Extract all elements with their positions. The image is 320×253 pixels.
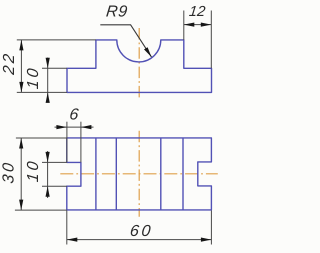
dim 12 extension line right: [210, 11, 212, 69]
centerline vertical front view: [138, 28, 140, 99]
dim 12 arrow left: [184, 23, 195, 27]
dim 10 bottom arrow up: [46, 186, 50, 197]
dim 60 arrow right: [201, 238, 212, 242]
dim 60 arrow left: [67, 238, 78, 242]
dim 10 front arrow down: [46, 58, 50, 69]
dim 22 extension line bottom: [17, 91, 67, 93]
svg-text:12: 12: [188, 4, 206, 20]
centerline horizontal bottom view: [60, 173, 218, 175]
dim 22 extension line top: [17, 39, 96, 41]
dim 10 front arrow up: [46, 92, 50, 103]
dim 22 dimension line: [20, 40, 22, 93]
dim 30 dimension line: [20, 138, 22, 210]
dim 22 arrow down: [19, 82, 23, 93]
svg-text:R9: R9: [105, 3, 128, 21]
svg-text:60: 60: [129, 222, 154, 240]
dim 12 arrow right: [201, 23, 212, 27]
bottom view edge line arc left: [115, 138, 117, 210]
centerline vertical bottom view: [138, 131, 140, 217]
dim 10 front dimension line: [47, 58, 49, 102]
front view part outline: [67, 40, 212, 93]
dim 10 bottom arrow down: [46, 152, 50, 163]
svg-text:6: 6: [69, 106, 82, 124]
dim 10 bottom extension line bottom: [42, 185, 67, 187]
R9 leader line: [100, 25, 151, 57]
dim 60 extension line left: [66, 211, 68, 245]
dim 30 extension line bottom: [15, 209, 67, 211]
bottom view edge line notch: [182, 138, 184, 210]
dim 6 arrow pointing left: [81, 125, 92, 129]
dim 6 dimension line: [55, 126, 94, 128]
svg-text:10: 10: [24, 65, 42, 90]
dim 6 extension line left: [66, 122, 68, 163]
dim 60 extension line right: [210, 211, 212, 245]
bottom view edge line arc right: [160, 138, 162, 210]
bottom view edge line step: [95, 138, 97, 210]
R9 leader arrowhead: [144, 47, 152, 57]
dim 22 arrow up: [19, 40, 23, 51]
dim 60 dimension line: [67, 239, 212, 241]
dim 12 dimension line: [184, 24, 212, 26]
dim 10 bottom extension line top: [42, 161, 67, 163]
svg-text:10: 10: [24, 158, 42, 183]
dim 10 front extension line: [42, 67, 67, 69]
dim 30 arrow down: [19, 200, 23, 211]
bottom view part outline: [67, 138, 212, 210]
dim 12 extension line left: [183, 11, 185, 40]
dim 6 arrow pointing right: [56, 125, 67, 129]
svg-text:30: 30: [0, 160, 18, 185]
svg-text:22: 22: [0, 51, 18, 77]
dim 10 bottom dimension line: [47, 151, 49, 198]
dim 30 arrow up: [19, 138, 23, 149]
dim 30 extension line top: [16, 137, 67, 139]
dim 6 extension line right: [80, 122, 82, 163]
